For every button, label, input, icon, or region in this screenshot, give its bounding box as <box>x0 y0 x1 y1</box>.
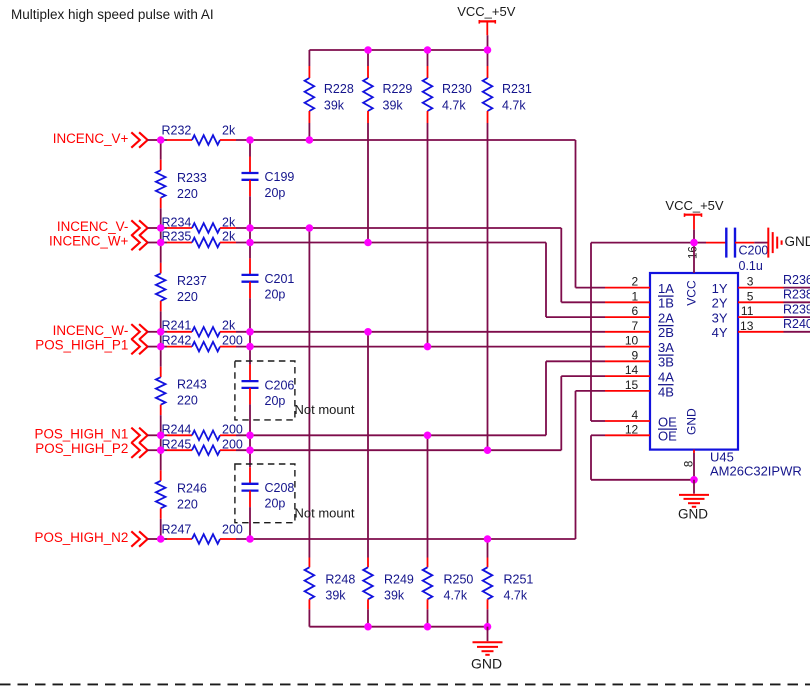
resistor R242 200 (POS_HIGH_P1 series) <box>161 333 605 351</box>
svg-text:9: 9 <box>632 348 639 362</box>
svg-text:200: 200 <box>222 523 243 537</box>
pin 11 (3Y) <box>712 304 810 325</box>
svg-text:220: 220 <box>177 394 198 408</box>
svg-text:200: 200 <box>222 438 243 452</box>
svg-text:R230: R230 <box>442 82 472 96</box>
pin 9 (3B) <box>605 348 674 369</box>
svg-text:R234: R234 <box>162 216 192 230</box>
svg-text:2A: 2A <box>658 311 674 326</box>
resistor R249 39k pull-down <box>363 332 414 627</box>
label VCC (inside U45) <box>685 280 699 306</box>
svg-text:R231: R231 <box>502 82 532 96</box>
resistor R233 220 (V+/V- termination) <box>156 140 207 228</box>
port INCENC_W- <box>53 323 161 340</box>
svg-text:R233: R233 <box>177 171 207 185</box>
svg-text:3: 3 <box>747 275 754 289</box>
svg-text:6: 6 <box>632 304 639 318</box>
svg-text:R239: R239 <box>783 302 810 316</box>
wire POS_HIGH_N2 rise to pin 15 <box>576 391 606 539</box>
resistor R243 220 (P1/N1 termination) <box>156 347 207 436</box>
svg-text:INCENC_V-: INCENC_V- <box>57 219 128 234</box>
svg-text:200: 200 <box>222 333 243 347</box>
svg-text:R237: R237 <box>177 274 207 288</box>
svg-text:VCC: VCC <box>685 280 699 306</box>
port POS_HIGH_P2 <box>35 441 160 458</box>
wire bottom rail <box>309 626 487 628</box>
wire POS_HIGH_P2 rise to pin 14 <box>561 376 605 450</box>
svg-text:11: 11 <box>741 304 754 318</box>
svg-text:R247: R247 <box>162 523 192 537</box>
wire VCC feed to OE (pin 4) <box>591 243 694 421</box>
junction dots on V- row <box>157 224 313 232</box>
svg-text:12: 12 <box>625 422 639 436</box>
svg-text:3A: 3A <box>658 340 674 355</box>
svg-text:2: 2 <box>632 275 639 289</box>
svg-text:VCC_+5V: VCC_+5V <box>665 198 723 213</box>
pin 14 (4A) <box>605 363 674 384</box>
resistor R238 (output series, clipped) <box>783 288 810 302</box>
svg-text:R251: R251 <box>504 572 534 586</box>
svg-text:1Y: 1Y <box>712 281 728 296</box>
svg-text:4A: 4A <box>658 370 674 385</box>
junction dots on W+ row <box>157 239 372 247</box>
junction dots on V+ row <box>157 136 313 144</box>
svg-text:Not mount: Not mount <box>295 505 355 520</box>
svg-text:POS_HIGH_P2: POS_HIGH_P2 <box>35 441 128 456</box>
svg-text:R236: R236 <box>783 273 810 287</box>
pin 15 (4B) <box>605 378 674 399</box>
pin 16 number <box>687 246 699 259</box>
svg-text:R232: R232 <box>162 124 192 138</box>
pin 6 (2A) <box>605 304 674 325</box>
svg-text:POS_HIGH_N1: POS_HIGH_N1 <box>35 426 129 441</box>
svg-text:220: 220 <box>177 187 198 201</box>
svg-text:20p: 20p <box>265 186 286 200</box>
svg-text:U45: U45 <box>710 450 734 465</box>
junction dot ground node <box>690 476 698 484</box>
wire N1 to P2 link (cap column) <box>249 435 251 450</box>
wire V- to W+ link (left column) <box>160 228 162 243</box>
capacitor C208 20p (not mounted) <box>242 450 295 539</box>
resistor R234 2k (INCENC_V- series) <box>161 216 562 233</box>
wire N1 to P2 link (left column) <box>160 435 162 450</box>
svg-text:20p: 20p <box>265 394 286 408</box>
svg-text:0.1u: 0.1u <box>739 259 763 273</box>
svg-text:1A: 1A <box>658 281 674 296</box>
resistor R246 220 (P2/N2 termination) <box>156 450 207 539</box>
pin 13 (4Y) <box>712 319 810 340</box>
port POS_HIGH_N1 <box>35 426 161 443</box>
pin 3 (1Y) <box>712 275 810 296</box>
svg-text:39k: 39k <box>383 98 404 112</box>
pin 2 (1A) <box>605 275 674 296</box>
svg-text:4.7k: 4.7k <box>442 98 466 112</box>
junction dots on P2 row <box>157 446 491 454</box>
svg-text:39k: 39k <box>384 588 405 602</box>
port INCENC_W+ <box>49 234 161 251</box>
svg-text:R246: R246 <box>177 481 207 495</box>
label GND (inside U45) <box>685 408 699 435</box>
svg-text:2k: 2k <box>222 319 236 333</box>
resistor R251 4.7k pull-down <box>483 539 534 627</box>
wire W- to P1 link (left column) <box>160 332 162 347</box>
svg-text:7: 7 <box>632 319 639 333</box>
svg-text:R235: R235 <box>162 230 192 244</box>
svg-text:R241: R241 <box>162 319 192 333</box>
resistor R239 (output series, clipped) <box>783 302 810 316</box>
junction dots on N1 row <box>157 432 431 440</box>
svg-text:10: 10 <box>625 334 639 348</box>
port INCENC_V+ <box>53 131 161 148</box>
svg-text:200: 200 <box>222 423 243 437</box>
dashed box around C208 <box>235 464 295 523</box>
resistor R228 39k pull-up <box>305 50 354 140</box>
wire INCENC_V+ drop to pin 2 <box>576 140 606 288</box>
svg-text:4.7k: 4.7k <box>444 588 468 602</box>
capacitor C201 20p <box>242 243 295 332</box>
resistor R250 4.7k pull-down <box>423 435 474 626</box>
svg-text:Multiplex high speed pulse wit: Multiplex high speed pulse with AI <box>11 7 214 22</box>
resistor R231 4.7k pull-up <box>483 50 532 450</box>
svg-text:1: 1 <box>632 289 639 303</box>
dashed page border (bottom) <box>0 683 810 685</box>
resistor R229 39k pull-up <box>363 50 412 243</box>
capacitor C199 20p <box>242 140 295 228</box>
junction dots on N2 row <box>157 535 491 543</box>
pin 1 (1B) <box>605 289 674 310</box>
junction dot VCC node <box>690 239 698 247</box>
resistor R245 200 (POS_HIGH_P2 series) <box>161 438 562 455</box>
svg-text:R248: R248 <box>325 572 355 586</box>
svg-text:OE: OE <box>658 414 677 429</box>
label Not mount (C206) <box>295 402 355 417</box>
svg-text:2k: 2k <box>222 230 236 244</box>
junction dots on top rail <box>364 46 491 54</box>
svg-text:2k: 2k <box>222 124 236 138</box>
ground symbol (bottom rail) <box>471 627 503 672</box>
svg-text:OE: OE <box>658 429 677 444</box>
ground symbol (U45 GND) <box>678 480 709 522</box>
svg-text:39k: 39k <box>324 98 345 112</box>
svg-text:AM26C32IPWR: AM26C32IPWR <box>710 463 802 478</box>
port INCENC_V- <box>57 219 161 236</box>
title text <box>11 7 214 22</box>
svg-text:POS_HIGH_P1: POS_HIGH_P1 <box>35 338 128 353</box>
svg-text:4Y: 4Y <box>712 325 728 340</box>
svg-text:C200: C200 <box>739 244 769 258</box>
svg-text:C206: C206 <box>265 378 295 392</box>
svg-text:R238: R238 <box>783 288 810 302</box>
svg-text:20p: 20p <box>265 288 286 302</box>
pin 4 (OE) <box>605 408 677 429</box>
resistor R230 4.7k pull-up <box>423 50 472 347</box>
svg-text:C208: C208 <box>265 481 295 495</box>
svg-text:R245: R245 <box>162 438 192 452</box>
svg-text:INCENC_W-: INCENC_W- <box>53 323 129 338</box>
svg-text:8: 8 <box>683 461 695 467</box>
svg-text:POS_HIGH_N2: POS_HIGH_N2 <box>35 530 129 545</box>
svg-text:4.7k: 4.7k <box>504 588 528 602</box>
pin 5 (2Y) <box>712 289 810 310</box>
ground symbol (C200, rotated) <box>768 228 810 258</box>
svg-text:R244: R244 <box>162 423 192 437</box>
wire POS_HIGH_N1 rise to pin 9 <box>546 361 605 435</box>
power symbol VCC_+5V (U45 supply) <box>665 198 723 243</box>
svg-text:2Y: 2Y <box>712 296 728 311</box>
svg-text:R229: R229 <box>383 82 413 96</box>
svg-text:GND: GND <box>678 507 708 522</box>
svg-text:1B: 1B <box>658 296 674 311</box>
capacitor C200 0.1u <box>694 228 768 273</box>
power symbol VCC_+5V (top rail) <box>457 4 515 50</box>
junction dots on P1 row <box>157 343 431 351</box>
svg-text:39k: 39k <box>325 588 346 602</box>
junction dots on W- row <box>157 328 372 336</box>
svg-text:3B: 3B <box>658 355 674 370</box>
svg-text:13: 13 <box>740 319 754 333</box>
wire W- to P1 link (cap column) <box>249 332 251 347</box>
svg-text:R228: R228 <box>324 82 354 96</box>
resistor R244 200 (POS_HIGH_N1 series) <box>161 423 546 441</box>
capacitor C206 20p (not mounted) <box>242 347 295 436</box>
resistor R248 39k pull-down <box>305 228 356 627</box>
svg-text:C199: C199 <box>265 170 295 184</box>
svg-text:14: 14 <box>625 363 639 377</box>
svg-text:Not mount: Not mount <box>295 402 355 417</box>
svg-text:VCC_+5V: VCC_+5V <box>457 4 515 19</box>
wire pin 8 to ground <box>693 450 695 480</box>
wire V- to W+ link (cap column) <box>249 228 251 243</box>
label Not mount (C208) <box>295 505 355 520</box>
wire OE-bar (pin 12) to ground <box>591 435 694 480</box>
svg-text:220: 220 <box>177 497 198 511</box>
svg-text:2B: 2B <box>658 325 674 340</box>
resistor R237 220 (W+/W- termination) <box>156 243 207 332</box>
pin 8 number <box>683 461 695 467</box>
svg-text:GND: GND <box>471 655 502 671</box>
pin 12 (OE) <box>605 422 677 443</box>
junction dots on bottom rail <box>364 623 491 631</box>
resistor R247 200 (POS_HIGH_N2 series) <box>161 523 576 544</box>
svg-text:R243: R243 <box>177 378 207 392</box>
resistor R232 2k (INCENC_V+ series) <box>161 124 576 145</box>
svg-text:4B: 4B <box>658 384 674 399</box>
svg-text:C201: C201 <box>265 272 295 286</box>
svg-text:220: 220 <box>177 290 198 304</box>
wire INCENC_V- drop to pin 1 <box>561 228 605 302</box>
port POS_HIGH_P1 <box>35 338 160 355</box>
pin 7 (2B) <box>605 319 674 340</box>
svg-text:GND: GND <box>785 234 810 249</box>
wire VCC to pin 16 <box>693 243 695 273</box>
svg-text:INCENC_W+: INCENC_W+ <box>49 234 128 249</box>
svg-text:R242: R242 <box>162 333 192 347</box>
wire top +5V rail <box>309 49 487 51</box>
svg-text:R250: R250 <box>444 572 474 586</box>
svg-text:20p: 20p <box>265 497 286 511</box>
svg-text:INCENC_V+: INCENC_V+ <box>53 131 129 146</box>
svg-text:3Y: 3Y <box>712 311 728 326</box>
wire INCENC_W+ drop to pin 6 <box>546 243 605 318</box>
svg-text:15: 15 <box>625 378 639 392</box>
dashed box around C206 <box>235 361 295 420</box>
svg-text:4: 4 <box>632 408 639 422</box>
resistor R236 (output series, clipped) <box>783 273 810 287</box>
port POS_HIGH_N2 <box>35 530 161 547</box>
pin 10 (3A) <box>605 334 674 355</box>
svg-text:GND: GND <box>685 408 699 435</box>
resistor R240 (output series, clipped) <box>783 317 810 331</box>
IC U45 AM26C32IPWR (quad differential line receiver) <box>650 273 802 478</box>
svg-text:5: 5 <box>747 289 754 303</box>
resistor R235 2k (INCENC_W+ series) <box>161 230 546 248</box>
svg-text:2k: 2k <box>222 216 236 230</box>
svg-text:4.7k: 4.7k <box>502 98 526 112</box>
svg-text:R249: R249 <box>384 572 414 586</box>
svg-text:R240: R240 <box>783 317 810 331</box>
resistor R241 2k (INCENC_W- series) <box>161 319 605 337</box>
